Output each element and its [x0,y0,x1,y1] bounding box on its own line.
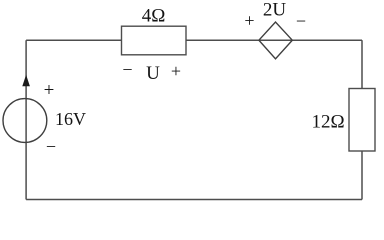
resistor value label 4Ω [142,6,166,27]
svg-text:4Ω: 4Ω [142,6,166,27]
voltage U label [146,63,160,84]
wire left (top corner through voltage source to bottom corner) [25,40,27,199]
svg-text:16V: 16V [55,109,86,129]
voltage source polarity arrow (points up along wire) [22,75,30,87]
svg-text:+: + [44,80,55,101]
resistor 4Ω body [122,26,187,55]
wire bottom [26,199,362,201]
dependent source 2U diamond [259,22,292,59]
svg-text:−: − [296,11,306,31]
voltage source − mark [46,137,56,157]
svg-text:2U: 2U [263,0,287,21]
dependent source value label 2U [263,0,287,21]
voltage source + mark [44,80,55,101]
node U − mark (under resistor left) [122,60,132,80]
dependent source − mark [296,11,306,31]
svg-text:U: U [146,63,160,84]
voltage source Vs circle [3,99,47,143]
svg-text:12Ω: 12Ω [311,112,344,133]
resistor 12Ω body [349,89,375,152]
svg-text:+: + [244,11,254,31]
svg-text:−: − [122,60,132,80]
wire right (top corner down to 12Ω resistor) [361,40,363,88]
wire top (left segment, node A to 4Ω resistor) [26,39,121,41]
node U + mark (under resistor right) [171,61,181,81]
voltage source value label 16V [55,109,86,129]
svg-text:−: − [46,137,56,157]
svg-text:+: + [171,61,181,81]
wire top (4Ω resistor to dependent source, runs through diamond to right corner) [186,39,362,41]
wire right (12Ω resistor to bottom corner) [361,151,363,200]
resistor value label 12Ω [311,112,344,133]
dependent source + mark [244,11,254,31]
